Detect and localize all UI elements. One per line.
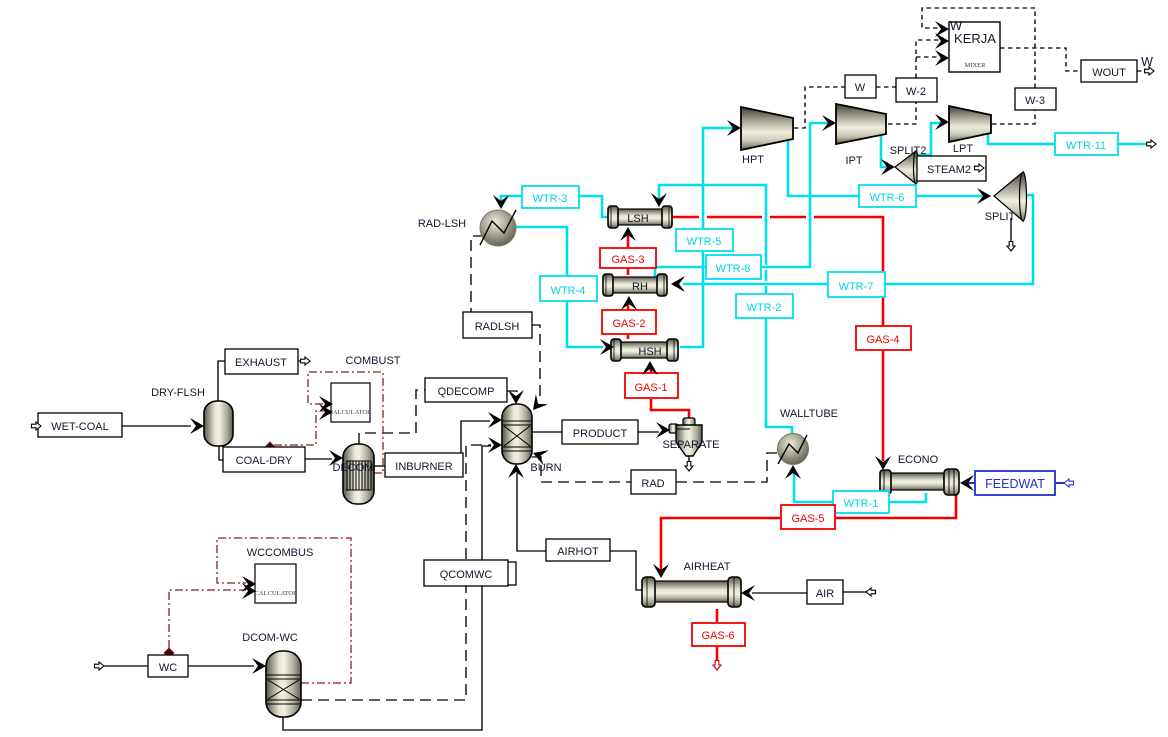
svg-text:COMBUST: COMBUST: [346, 355, 401, 367]
turbine IPT: [836, 104, 886, 144]
arrow into RAD-LSH top (WTR-3): [493, 195, 509, 209]
wire SPLIT bottom outlet: [1010, 218, 1012, 243]
calc-link WCCOMBUS from WC tap: [169, 590, 246, 648]
label box GAS-3: [600, 248, 656, 268]
svg-text:HSH: HSH: [638, 346, 661, 358]
arrow into CALC2 (from WC tap): [242, 583, 256, 599]
svg-text:WTR-2: WTR-2: [747, 302, 782, 314]
heatx ECONO: [880, 469, 959, 495]
work WOUT KERJA to out: [1000, 48, 1146, 71]
svg-text:AIRHEAT: AIRHEAT: [684, 561, 731, 573]
flash drum DRY-FLSH: [204, 401, 233, 446]
label box PRODUCT: [562, 420, 638, 444]
water WALLTUBE to WTR-2 up: [659, 185, 792, 434]
gas GAS-1 SEPARATE to HSH: [651, 368, 689, 419]
label box AIRHOT: [546, 539, 610, 561]
arrow into DCOM-WC: [252, 658, 266, 674]
water WTR-7 SPLIT to RH: [683, 195, 1033, 284]
turbine HPT: [741, 107, 793, 150]
water WTR-4 RAD-LSH to HSH: [516, 227, 603, 347]
calc-link WCCOMBUS from DCOM-WC: [217, 538, 351, 683]
arrow into IPT: [822, 115, 836, 131]
svg-text:W: W: [950, 18, 963, 33]
svg-text:WTR-4: WTR-4: [551, 285, 586, 297]
heatx RH: [603, 274, 667, 296]
reactor BURN (RGibbs): [502, 404, 532, 464]
cyan water label boxes: [522, 133, 1118, 513]
label box WTR-11: [1055, 133, 1118, 155]
svg-text:COAL-DRY: COAL-DRY: [236, 455, 293, 467]
label box WTR-7: [828, 272, 885, 297]
svg-text:HPT: HPT: [742, 154, 764, 166]
svg-text:GAS-1: GAS-1: [634, 382, 667, 394]
label box WET-COAL: [38, 413, 122, 437]
svg-text:GAS-6: GAS-6: [701, 630, 734, 642]
label box FEEDWAT (blue): [975, 471, 1055, 495]
svg-text:BURN: BURN: [530, 462, 561, 474]
svg-text:WTR-3: WTR-3: [533, 193, 568, 205]
heatx HSH: [611, 339, 678, 361]
svg-text:WCCOMBUS: WCCOMBUS: [247, 547, 314, 559]
feed FEEDWAT (blue): [966, 482, 1064, 484]
red gas label boxes: [600, 248, 911, 646]
svg-text:QDECOMP: QDECOMP: [438, 386, 495, 398]
wire WC feed: [104, 665, 254, 667]
svg-text:WTR-8: WTR-8: [716, 263, 751, 275]
svg-text:PRODUCT: PRODUCT: [573, 428, 628, 440]
arrow into WALLTUBE bottom (WTR-1): [785, 465, 801, 479]
svg-text:RAD: RAD: [641, 478, 664, 490]
label box WTR-6: [859, 185, 916, 207]
arrow into KERJA inlet 2: [935, 33, 949, 49]
label box WTR-4: [540, 276, 597, 301]
svg-text:GAS-4: GAS-4: [866, 334, 899, 346]
arrow into RH right (WTR-7): [671, 276, 685, 292]
svg-text:SEPARATE: SEPARATE: [662, 439, 719, 451]
water WTR-8 RH to IPT: [655, 123, 828, 277]
svg-text:WC: WC: [159, 662, 177, 674]
arrow into CALC1 (from DECOM): [319, 396, 333, 412]
turbine LPT: [949, 106, 991, 142]
arrow into BURN top (QDECOMP): [508, 390, 524, 404]
wire DECOM to INBURNER: [374, 465, 385, 467]
arrow into BURN lower-right (RAD): [530, 445, 549, 465]
arrow into KERJA inlet 1: [935, 21, 949, 37]
work W-2 IPT: [888, 40, 941, 124]
label box GAS-1: [625, 373, 678, 398]
arrow into HPT: [727, 120, 741, 136]
svg-text:WTR-6: WTR-6: [870, 192, 905, 204]
svg-text:LSH: LSH: [627, 213, 648, 225]
svg-text:DCOM-WC: DCOM-WC: [242, 632, 298, 644]
label box WTR-2: [736, 294, 793, 318]
svg-text:IPT: IPT: [845, 155, 862, 167]
water WTR-3 LSH to RAD-LSH: [501, 196, 609, 217]
reactor DECOM (RStoic): [343, 444, 374, 504]
arrow into AIRHEAT right end: [741, 585, 755, 601]
heat RAD BURN to WALLTUBE: [532, 453, 777, 482]
svg-text:INBURNER: INBURNER: [395, 461, 453, 473]
svg-text:EXHAUST: EXHAUST: [235, 357, 287, 369]
feed arrow WET-COAL: [32, 422, 42, 430]
svg-text:WTR-5: WTR-5: [687, 236, 722, 248]
svg-text:STEAM2: STEAM2: [927, 164, 971, 176]
product arrow SPLIT bottom: [1007, 242, 1015, 252]
product arrow WTR-11: [1147, 140, 1157, 148]
mixer KERJA: [949, 18, 1000, 72]
label box AIR: [807, 580, 843, 604]
cyclone SEPARATE: [669, 418, 702, 456]
arrow into HSH bottom (GAS-1): [642, 361, 658, 375]
svg-text:WET-COAL: WET-COAL: [51, 421, 108, 433]
wire AIRHOT AIRHEAT to BURN: [517, 473, 642, 590]
water WTR-5 HSH to HPT: [680, 128, 733, 347]
svg-text:WTR-1: WTR-1: [844, 498, 879, 510]
svg-text:SPLIT: SPLIT: [985, 211, 1016, 223]
product arrow GAS-6: [713, 661, 721, 671]
svg-text:RAD-LSH: RAD-LSH: [418, 218, 466, 230]
feed arrow AIR: [866, 588, 876, 596]
gas GAS-4 LSH to ECONO (with line jumps): [672, 217, 883, 461]
water FEEDWAT-ECONO-WTR-1 to WALLTUBE: [794, 470, 926, 502]
product arrow STEAM2: [975, 164, 985, 172]
arrow into CALC1 (from COAL-DRY tap): [319, 404, 333, 420]
svg-text:GAS-3: GAS-3: [611, 254, 644, 266]
svg-text:FEEDWAT: FEEDWAT: [985, 477, 1045, 491]
svg-text:QCOMWC: QCOMWC: [440, 569, 493, 581]
arrow into CALC2 (from top rail): [242, 576, 256, 592]
wire SEPARATE solids out: [688, 456, 690, 463]
arrow into DRY-FLSH: [190, 418, 204, 434]
gas GAS-6 AIRHEAT out: [716, 609, 719, 663]
arrow into DECOM: [329, 450, 343, 466]
heat QDECOMP DECOM to BURN: [359, 390, 517, 444]
calculator COMBUST: [329, 383, 373, 422]
water LPT to WTR-11 out: [988, 134, 1148, 144]
svg-text:DECOM: DECOM: [333, 462, 374, 474]
label box GAS-2: [602, 310, 656, 334]
svg-text:W-3: W-3: [1025, 95, 1045, 107]
svg-text:MIXER: MIXER: [965, 62, 987, 69]
tap diamond on COAL-DRY: [265, 442, 275, 452]
arrow into LSH top (WTR-2): [651, 193, 667, 207]
arrow into SPLIT: [977, 188, 991, 204]
arrow into SEPARATE: [656, 422, 670, 438]
calc-link COMBUST from COAL-DRY tap: [274, 411, 324, 445]
label box GAS-6: [692, 623, 745, 646]
svg-text:WALLTUBE: WALLTUBE: [780, 408, 838, 420]
heatx LSH: [608, 206, 672, 228]
wire EXHAUST out of DRY-FLSH: [218, 361, 301, 401]
arrow into BURN bottom (AIRHOT): [508, 464, 524, 478]
svg-text:AIRHOT: AIRHOT: [557, 546, 599, 558]
svg-text:CALCULATOR: CALCULATOR: [255, 590, 299, 597]
arrow into HSH left (WTR-4): [600, 339, 614, 355]
gas GAS-2 HSH to RH: [627, 303, 630, 339]
calculator links (dash-dot dark red): [169, 372, 383, 683]
label box WTR-8: [706, 255, 761, 279]
water WTR-6 HPT to SPLIT: [788, 139, 982, 196]
svg-text:SPLIT2: SPLIT2: [890, 145, 927, 157]
label box W-3: [1015, 88, 1056, 110]
feed arrow WC: [95, 662, 105, 670]
arrow into AIRHEAT top-left (GAS-5): [653, 564, 669, 578]
arrow into LPT: [935, 114, 949, 130]
svg-text:LPT: LPT: [953, 143, 973, 155]
svg-text:ECONO: ECONO: [898, 454, 939, 466]
arrow into ECONO right (FEEDWAT): [960, 475, 974, 491]
water SPLIT2 to LPT: [916, 123, 941, 155]
arrow into BURN top-right (RADLSH): [527, 394, 548, 415]
label box WTR-1: [833, 491, 889, 513]
arrow into KERJA inlet 3: [935, 50, 949, 66]
tap diamond on WC: [164, 648, 174, 658]
gas GAS-5 ECONO to AIRHEAT: [661, 493, 956, 570]
splitter SPLIT2: [895, 151, 919, 184]
wire INBURNER to BURN: [461, 421, 490, 453]
label box WTR-3: [522, 186, 579, 208]
label box QDECOMP: [425, 378, 507, 402]
water IPT out to SPLIT2: [881, 135, 887, 167]
gas GAS-3 RH to LSH: [627, 234, 630, 275]
label box QCOMWC: [424, 560, 516, 586]
product arrow EXHAUST: [301, 357, 311, 365]
arrow into SPLIT2: [881, 159, 895, 175]
wire WET-COAL feed: [41, 425, 191, 427]
svg-text:DRY-FLSH: DRY-FLSH: [151, 387, 205, 399]
heat RADLSH RAD-LSH to BURN: [471, 236, 540, 400]
wire PRODUCT BURN to SEPARATE: [532, 431, 659, 433]
label box STEAM2: [917, 156, 986, 181]
work W HPT: [794, 87, 896, 128]
label box WC: [148, 655, 188, 677]
label box GAS-4: [856, 326, 911, 350]
svg-text:GAS-5: GAS-5: [791, 513, 824, 525]
calc-link COMBUST from DECOM: [308, 372, 383, 473]
heat streams (dashed): [301, 236, 777, 700]
svg-text:RADLSH: RADLSH: [475, 321, 520, 333]
svg-text:WTR-11: WTR-11: [1066, 140, 1106, 152]
arrow into RH bottom (GAS-2): [621, 296, 637, 310]
arrow into BURN upper-left: [488, 412, 502, 428]
arrow into ECONO top (GAS-4): [875, 456, 891, 470]
svg-text:RH: RH: [632, 281, 648, 293]
svg-text:W: W: [1141, 55, 1153, 69]
wire COAL-DRY from DRY-FLSH bottom: [219, 446, 332, 460]
label box RAD: [631, 470, 676, 494]
label box W: [845, 75, 876, 98]
svg-text:AIR: AIR: [816, 588, 834, 600]
label box W-2: [896, 78, 937, 102]
label box RADLSH: [463, 312, 532, 338]
label box COAL-DRY: [223, 447, 305, 472]
label box INBURNER: [385, 453, 463, 477]
heater WALLTUBE: [778, 434, 809, 465]
heater RAD-LSH: [480, 210, 516, 246]
svg-text:WOUT: WOUT: [1092, 67, 1126, 79]
svg-text:WTR-7: WTR-7: [839, 281, 874, 293]
product arrow SEPARATE bottom: [685, 462, 693, 472]
heat QCOMWC DCOM-WC to BURN: [301, 445, 491, 700]
product arrow WOUT W: [1145, 67, 1155, 75]
work streams (dashed): [794, 8, 1146, 128]
label box WOUT: [1081, 60, 1137, 82]
label box WTR-5: [676, 229, 733, 251]
heatx AIRHEAT: [642, 577, 741, 607]
calculator WCCOMBUS: [255, 564, 299, 603]
svg-text:W-2: W-2: [906, 86, 926, 98]
label box EXHAUST: [225, 349, 298, 374]
wire DCOM-WC product to BURN: [283, 446, 491, 730]
wire AIR feed: [752, 592, 866, 593]
svg-text:W: W: [855, 82, 866, 94]
arrow into BURN lower-left: [488, 437, 502, 453]
svg-text:KERJA: KERJA: [954, 31, 996, 46]
work W-3 LPT: [922, 8, 1035, 124]
feed arrow FEEDWAT: [1064, 479, 1074, 487]
svg-text:GAS-2: GAS-2: [612, 318, 645, 330]
reactor DCOM-WC (RGibbs): [266, 651, 301, 717]
splitter SPLIT: [994, 172, 1027, 221]
label box GAS-5: [781, 505, 835, 529]
svg-text:CALCULATOR: CALCULATOR: [329, 409, 373, 416]
arrow into LSH bottom (GAS-3): [620, 227, 636, 241]
